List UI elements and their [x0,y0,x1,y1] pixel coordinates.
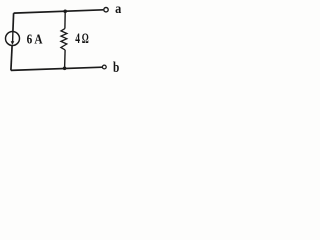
current source arrow shaft [12,32,14,43]
resistor R 4Ω zigzag [61,29,67,50]
current source I (circle) [6,32,20,46]
svg-text:Ω: Ω [82,30,89,47]
wire left vertical below source [11,46,12,71]
terminal a (open circle) [104,8,108,12]
svg-text:6 A: 6 A [27,32,43,47]
resistor lead bottom [64,50,67,68]
terminal b (open circle) [102,65,106,69]
node junction top of resistor [63,10,67,14]
wire left vertical into source [12,13,15,31]
node junction bottom of resistor [63,67,67,71]
wire bottom (node b rail) [11,67,102,70]
wire top (node a rail) [14,10,104,13]
svg-text:a: a [115,2,122,17]
svg-text:b: b [113,58,119,75]
svg-text:4: 4 [75,30,80,46]
resistor lead top [64,11,66,28]
current source arrowhead [11,41,15,45]
